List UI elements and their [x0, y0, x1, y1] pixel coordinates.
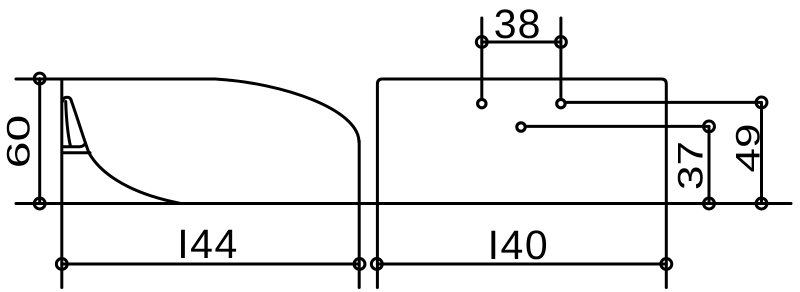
- svg-text:37: 37: [672, 141, 711, 190]
- baseline (common bottom line of both views): [16, 202, 791, 205]
- dimension 140: left circle: [371, 259, 382, 270]
- svg-text:I44: I44: [177, 221, 239, 267]
- left view inner profile: wedge left line: [66, 102, 71, 146]
- dimension 38: right circle: [555, 37, 566, 48]
- dimension 37: line: [708, 126, 711, 203]
- svg-text:60: 60: [0, 115, 36, 168]
- right view outline (rounded top corners, open bottom), edges extend to 144/140 dim: [377, 79, 666, 288]
- dimension 49: bottom circle: [756, 198, 767, 209]
- dimension 49: line: [760, 102, 763, 203]
- dimension 49: leader line from top-right hole: [565, 101, 762, 104]
- dimension 144: line: [62, 263, 359, 266]
- dimension 140: line: [377, 263, 666, 266]
- dimension 38: left extension line: [480, 18, 483, 98]
- hole top-left: [478, 99, 486, 107]
- dimension 38: right extension line: [559, 18, 562, 98]
- left view inner profile: upper step line: [63, 143, 86, 147]
- left view inner profile: lip top arc: [63, 97, 72, 101]
- left view right edge / 144 extension line: [358, 141, 361, 288]
- svg-text:38: 38: [494, 1, 542, 47]
- left view left edge / 144 extension line: [60, 79, 63, 288]
- left view top-right curve: [215, 79, 359, 142]
- dimension 38: line: [482, 41, 561, 44]
- dimension 60: top circle: [34, 73, 45, 84]
- left view top line: [16, 78, 215, 81]
- dimension 60: line: [38, 79, 41, 204]
- svg-text:I40: I40: [488, 222, 550, 268]
- dimension 144: left circle: [56, 259, 67, 270]
- dimension 60: bottom circle: [34, 198, 45, 209]
- dimension 37: bottom circle: [704, 198, 715, 209]
- dimension 49: top circle: [756, 97, 767, 108]
- hole top-right: [557, 99, 565, 107]
- dimension 38: left circle: [476, 37, 487, 48]
- dimension 37: top circle: [704, 121, 715, 132]
- dimension 37: leader line from middle hole: [525, 125, 709, 128]
- left view inner profile: big curve to baseline: [71, 101, 180, 204]
- hole middle: [517, 123, 525, 131]
- svg-text:49: 49: [729, 124, 767, 173]
- dimension 144: right circle: [354, 259, 365, 270]
- left view inner profile: lower step line: [63, 151, 91, 154]
- dimension 140: right circle: [661, 259, 672, 270]
